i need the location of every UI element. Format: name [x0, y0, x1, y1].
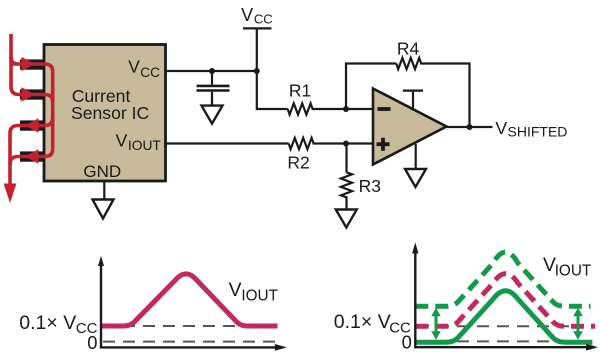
- svg-text:CC: CC: [254, 12, 273, 27]
- svg-text:R4: R4: [397, 38, 420, 58]
- svg-text:IOUT: IOUT: [241, 287, 278, 304]
- svg-text:IOUT: IOUT: [128, 138, 162, 153]
- svg-text:IOUT: IOUT: [555, 262, 592, 279]
- svg-text:V: V: [229, 279, 242, 301]
- svg-text:0: 0: [402, 331, 412, 352]
- svg-text:V: V: [241, 5, 253, 25]
- svg-text:Sensor IC: Sensor IC: [71, 103, 150, 123]
- svg-text:V: V: [116, 130, 128, 150]
- svg-text:R3: R3: [359, 176, 381, 196]
- svg-text:R1: R1: [289, 81, 311, 101]
- svg-text:GND: GND: [83, 162, 121, 181]
- svg-text:R2: R2: [287, 152, 309, 172]
- svg-text:V: V: [128, 57, 140, 77]
- svg-text:0: 0: [87, 332, 97, 353]
- svg-text:SHIFTED: SHIFTED: [508, 123, 568, 139]
- svg-text:CC: CC: [140, 65, 160, 80]
- svg-text:V: V: [495, 118, 507, 138]
- svg-text:0.1× V: 0.1× V: [334, 311, 391, 333]
- svg-text:0.1× V: 0.1× V: [19, 312, 76, 334]
